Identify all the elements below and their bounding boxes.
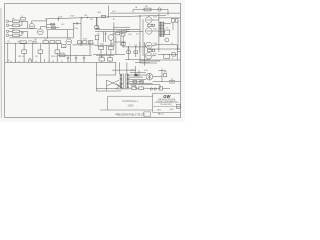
capacitor filter2	[75, 55, 77, 58]
resistor PI left	[95, 35, 98, 39]
wire tubes to OT	[152, 20, 159, 56]
svg-text:16: 16	[171, 43, 173, 45]
resistor 68k row3	[9, 30, 13, 32]
small box bottom	[159, 87, 162, 90]
output tube V8	[146, 53, 152, 59]
diode D2	[133, 81, 137, 83]
capacitor filter3	[83, 55, 85, 58]
transformer secondary lines	[129, 75, 153, 84]
output tube V5	[146, 17, 152, 23]
input jack J2	[6, 24, 9, 27]
revision box	[176, 104, 180, 108]
bias comps between tubes 2	[148, 49, 152, 51]
paper edge shadow left	[0, 8, 3, 118]
wire lower right	[130, 85, 160, 89]
wire transformer top feeds	[112, 62, 136, 74]
OT vertical feed	[158, 13, 160, 52]
wire x96 drop w box	[95, 17, 97, 25]
svg-text:50+50: 50+50	[99, 56, 104, 58]
filter cap row line	[58, 54, 92, 56]
wire PI verticals lower	[98, 36, 121, 55]
stub to border	[177, 45, 180, 60]
capacitor filter1	[67, 55, 69, 58]
resistor on row1	[51, 23, 55, 25]
wire input joins	[20, 21, 28, 35]
resistor 68k row4	[9, 34, 13, 36]
resistor on cap row	[60, 54, 66, 57]
ground bus	[5, 61, 116, 63]
wire top link	[58, 19, 81, 30]
resistor PI mid	[115, 32, 119, 35]
tube V2	[66, 39, 72, 45]
svg-text:FUSE: FUSE	[131, 85, 135, 87]
svg-text:GW: GW	[163, 94, 171, 99]
psu component top	[99, 58, 104, 61]
svg-text:.022: .022	[17, 41, 20, 43]
svg-text:+: +	[83, 60, 84, 62]
mains switch marks	[169, 78, 175, 83]
tube V3 phase inverter	[108, 35, 114, 41]
svg-text:1959: 1959	[127, 103, 133, 107]
resistor grid top	[21, 18, 26, 20]
mains plug pins	[150, 88, 152, 90]
capacitor link	[76, 22, 77, 24]
svg-text:EL34: EL34	[153, 28, 157, 30]
svg-text:EL34: EL34	[153, 43, 157, 45]
component cluster on row	[20, 41, 26, 44]
tube V1b	[37, 29, 43, 35]
output jack	[165, 38, 169, 42]
pot drops lower	[24, 53, 57, 62]
presence line	[122, 46, 150, 48]
wire coupling rows	[47, 24, 60, 27]
svg-text:8: 8	[172, 58, 173, 60]
wire mid level	[71, 40, 96, 62]
input jack J3	[6, 30, 9, 33]
svg-text:TEL 0604 21821: TEL 0604 21821	[160, 104, 172, 106]
svg-text:SL: SL	[8, 60, 10, 62]
svg-text:SW: SW	[164, 72, 167, 74]
voltage selector	[146, 73, 153, 80]
mains transformer T1	[116, 74, 129, 89]
PI verticals	[97, 17, 114, 45]
potentiometer P1	[22, 50, 27, 53]
sheet border frame	[5, 4, 181, 118]
speaker jack box	[164, 54, 170, 58]
wire V1 plate up	[32, 19, 47, 30]
output tube V6	[146, 28, 152, 34]
svg-text:EL34: EL34	[153, 16, 157, 18]
output transformer OT1	[159, 22, 164, 38]
resistor 68k row1	[9, 20, 13, 22]
wires right side	[140, 20, 180, 60]
wire tubes bottom lines	[140, 61, 160, 63]
svg-text:FS1: FS1	[145, 6, 148, 8]
svg-text:EL34: EL34	[153, 53, 157, 55]
resistor PI row	[99, 46, 104, 49]
value label texts (smudges)	[7, 6, 173, 88]
wire crossover diag	[96, 80, 121, 91]
input jack J1	[6, 20, 9, 23]
small box mains	[164, 74, 167, 77]
svg-text:.022: .022	[104, 34, 107, 36]
resistor on rail	[102, 15, 106, 17]
svg-text:.022: .022	[44, 39, 47, 41]
output tube V7	[146, 42, 152, 48]
title block	[153, 93, 181, 112]
presence pots	[127, 51, 131, 54]
svg-text:PRECISION TA&LC TE LTD: PRECISION TA&LC TE LTD	[115, 113, 145, 116]
bias comps between tubes	[148, 24, 152, 26]
potentiometer P3	[55, 50, 60, 53]
svg-text:V2: V2	[63, 47, 65, 49]
resistor mid low	[62, 45, 66, 48]
resistor on row2	[52, 27, 56, 29]
svg-text:1M LOG: 1M LOG	[51, 56, 58, 58]
svg-text:V1: V1	[21, 16, 23, 18]
node dots on rail	[58, 18, 59, 19]
presence bottom lines	[125, 60, 150, 63]
box right of OT	[165, 30, 170, 35]
wire PI bottom line	[93, 54, 125, 56]
wire top heater line	[133, 10, 168, 13]
wire rows to right	[9, 21, 48, 38]
tube V1a	[29, 24, 34, 29]
capacitor PI pair	[104, 32, 106, 43]
bus ticks	[8, 59, 84, 63]
PI horizontals	[95, 27, 130, 31]
wire selector out	[153, 77, 181, 82]
wire line T2	[110, 10, 180, 18]
input jack J4	[6, 34, 9, 37]
capacitor on bus	[29, 59, 32, 60]
small box right	[172, 53, 175, 56]
resistor pair mid	[77, 41, 81, 44]
svg-text:32+32: 32+32	[60, 52, 65, 54]
wire vertical from top	[107, 6, 109, 17]
comps top right	[171, 19, 174, 23]
footer small box	[144, 112, 151, 116]
presence verticals	[129, 42, 145, 66]
wire v1b up	[40, 27, 46, 29]
wire bus to PSU	[96, 62, 116, 91]
resistor 68k row2	[9, 24, 13, 26]
svg-text:+: +	[75, 60, 76, 62]
wire pot drops	[8, 43, 57, 62]
svg-text:470K: 470K	[58, 17, 63, 19]
wire PI mid line	[95, 44, 115, 46]
svg-text:MARSHALL: MARSHALL	[123, 99, 139, 103]
svg-text:.1: .1	[129, 44, 130, 46]
svg-text:+: +	[67, 60, 68, 62]
svg-text:LINES ELECTRONICS: LINES ELECTRONICS	[158, 99, 176, 101]
svg-text:OT: OT	[166, 28, 168, 30]
title block text lines	[156, 99, 180, 111]
potentiometer P2	[38, 50, 43, 53]
svg-text:1M LOG: 1M LOG	[18, 56, 25, 58]
svg-text:SHT 1: SHT 1	[170, 109, 175, 111]
svg-text:TA 6-1: TA 6-1	[158, 112, 165, 115]
svg-text:.022: .022	[61, 24, 64, 26]
volume row line	[5, 42, 62, 44]
components PI right	[121, 30, 126, 32]
wire B+ rail	[45, 15, 166, 19]
fuse holder	[132, 87, 137, 90]
MARSHALL box	[100, 96, 153, 110]
wire loop rectangle	[47, 30, 73, 38]
diode D1	[135, 74, 138, 76]
svg-text:TA 6: TA 6	[157, 108, 161, 111]
psu verticals	[130, 66, 146, 89]
wire to output tubes	[126, 16, 143, 63]
wire vertical x81	[80, 18, 82, 46]
svg-text:MAINS: MAINS	[130, 69, 136, 72]
svg-text:470K: 470K	[70, 15, 75, 17]
fuse F1	[144, 8, 151, 11]
diode D3	[140, 81, 144, 83]
pilot lamp	[158, 8, 161, 11]
